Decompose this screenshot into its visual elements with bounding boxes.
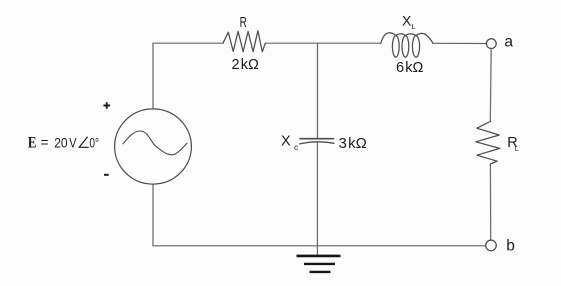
angle symbol: [79, 137, 89, 148]
terminal b circle: [486, 240, 497, 251]
svg-text:a: a: [504, 34, 513, 51]
capacitor XC top plate: [300, 138, 334, 140]
svg-text:L: L: [411, 22, 415, 31]
source polarity plus: [103, 102, 110, 109]
svg-text:X: X: [281, 133, 291, 149]
wire bottom horizontal: [153, 245, 486, 247]
ground symbol: [297, 256, 341, 272]
wire top-left horizontal: [153, 42, 223, 44]
svg-text:L: L: [515, 144, 519, 153]
inductor XL loop 3: [412, 36, 419, 57]
svg-text:=: =: [41, 135, 49, 150]
svg-text:0°: 0°: [89, 135, 99, 151]
wire top-right to terminal a: [433, 42, 487, 44]
svg-text:R: R: [240, 15, 247, 31]
inductor XL loop 2: [402, 36, 409, 57]
wire middle vertical upper (node to capacitor): [317, 43, 319, 138]
svg-text:2 kΩ: 2 kΩ: [232, 57, 260, 73]
wire left vertical upper: [152, 43, 154, 108]
wire top-middle horizontal: [265, 42, 381, 44]
wire right vertical upper: [489, 48, 492, 121]
svg-text:6 kΩ: 6 kΩ: [396, 60, 424, 76]
source sine wave: [123, 131, 187, 155]
svg-text:20: 20: [54, 135, 68, 151]
svg-text:V: V: [69, 135, 77, 151]
svg-text:b: b: [506, 237, 515, 254]
wire middle vertical lower (capacitor to ground): [316, 142, 318, 255]
resistor R zigzag: [223, 31, 265, 52]
terminal a circle: [486, 39, 496, 49]
svg-text:c: c: [294, 142, 299, 152]
inductor XL humps: [381, 33, 433, 44]
wire right vertical lower: [489, 164, 491, 240]
capacitor XC bottom curved plate: [300, 142, 334, 144]
inductor XL loop 1: [392, 36, 399, 57]
resistor RL zigzag: [476, 122, 500, 165]
source circle E: [115, 109, 192, 184]
wire left vertical lower: [152, 185, 154, 246]
source polarity minus: [104, 174, 109, 176]
svg-text:E: E: [28, 135, 37, 152]
svg-text:3 kΩ: 3 kΩ: [339, 135, 367, 152]
